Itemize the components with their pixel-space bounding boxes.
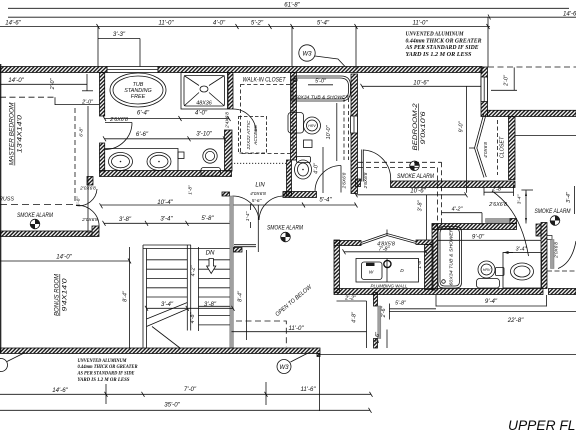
svg-text:4'-8": 4'-8" xyxy=(190,312,196,324)
svg-text:OPEN TO BELOW: OPEN TO BELOW xyxy=(275,284,314,318)
dimension row bottom: 14'-6" 7'-0" 11'-6" xyxy=(0,382,373,405)
svg-text:CLOSET: CLOSET xyxy=(500,136,506,158)
shower 48X36 xyxy=(181,73,228,110)
svg-text:AS PER STANDARD IF SIDE: AS PER STANDARD IF SIDE xyxy=(405,45,479,51)
wall: right wing north xyxy=(488,110,576,116)
svg-text:RUSS: RUSS xyxy=(0,197,14,203)
pocket door dashes bath2 xyxy=(343,98,345,160)
wall: bath2 south xyxy=(283,192,317,198)
svg-text:61'-8": 61'-8" xyxy=(284,1,300,8)
dimension 2'-0" top right xyxy=(488,67,576,90)
svg-text:6'-6": 6'-6" xyxy=(136,131,149,138)
LIN closet xyxy=(231,163,286,188)
dim 3'-8" right of bedroom2 xyxy=(418,195,427,240)
small dim 1'-4" xyxy=(245,204,251,228)
svg-text:UPPER FLOOR PLAN: UPPER FLOOR PLAN xyxy=(508,418,576,432)
wall: master bedroom/bath wall upper xyxy=(100,73,105,117)
vanity xyxy=(503,253,542,289)
svg-text:48X36: 48X36 xyxy=(196,101,212,107)
svg-text:8'-4": 8'-4" xyxy=(123,290,129,302)
dimension 5'-4" hall low xyxy=(319,196,357,207)
dim 4'-0" bath2 xyxy=(314,147,324,193)
small shelf bath2 xyxy=(304,140,313,148)
svg-text:YARD IS 1.2 M OR LESS: YARD IS 1.2 M OR LESS xyxy=(78,377,130,383)
smoke alarm symbol 2 xyxy=(281,232,291,242)
stair north wall xyxy=(143,244,191,246)
svg-text:2'-6": 2'-6" xyxy=(381,306,387,319)
master bedroom doors xyxy=(75,106,99,233)
svg-text:W3: W3 xyxy=(279,364,289,371)
svg-text:10'-0": 10'-0" xyxy=(326,125,332,140)
room label MASTER BEDROOM xyxy=(10,102,24,165)
svg-text:10'-6": 10'-6" xyxy=(413,80,429,87)
svg-text:14'-0": 14'-0" xyxy=(56,253,72,260)
svg-text:SMOKE ALARM: SMOKE ALARM xyxy=(535,208,572,215)
truss step line w/ 2'-0" xyxy=(0,97,99,105)
svg-text:4'-0": 4'-0" xyxy=(314,162,320,174)
wall: bonus room north xyxy=(0,231,92,237)
dimension 3'-3" xyxy=(98,26,140,66)
HRV xyxy=(478,261,495,278)
dim 3'-4" far right xyxy=(566,186,575,214)
svg-text:1'-8": 1'-8" xyxy=(188,185,194,195)
room label BONUS ROOM xyxy=(55,274,69,316)
svg-text:4'0X6'8: 4'0X6'8 xyxy=(250,191,266,197)
svg-text:SMOKE ALARM: SMOKE ALARM xyxy=(397,173,435,180)
wall: south main xyxy=(0,348,320,354)
wall: bath3 west xyxy=(432,224,438,290)
open to below dashed boundary xyxy=(236,321,286,347)
svg-text:3'-8": 3'-8" xyxy=(119,216,132,223)
svg-text:4'-0": 4'-0" xyxy=(195,110,208,117)
svg-text:2'0X6'8: 2'0X6'8 xyxy=(554,242,560,259)
dim 10'-0" bath2 xyxy=(326,103,337,161)
svg-text:6'-8": 6'-8" xyxy=(76,196,82,206)
extension line x=319.5 xyxy=(319,355,321,411)
stair break lines xyxy=(147,303,188,349)
dimension 3'-8" 3'-4" 5'-8" hall xyxy=(103,215,233,226)
dimension line second row 14'-6" right xyxy=(8,11,576,20)
door 2'6X6'8 master bath xyxy=(105,117,132,150)
svg-text:22X22 ATTIC: 22X22 ATTIC xyxy=(246,120,252,151)
svg-text:5'-8": 5'-8" xyxy=(395,300,407,306)
closet divider dashed xyxy=(497,120,499,175)
svg-text:5'-0": 5'-0" xyxy=(315,79,327,85)
wall: laundry/bath3 south xyxy=(334,289,543,295)
tub 60X34 xyxy=(438,227,462,289)
hall pocket door south xyxy=(374,293,381,349)
wall: bath3 east xyxy=(541,223,547,289)
toilet master bath xyxy=(201,149,221,176)
wall: bath2 east with window xyxy=(351,74,358,194)
svg-text:2'4X6'8: 2'4X6'8 xyxy=(225,112,231,129)
svg-text:2'0X6'8: 2'0X6'8 xyxy=(81,217,98,223)
smoke alarm symbol 1 xyxy=(30,219,40,229)
dimension 10'-4" hall xyxy=(100,199,357,252)
svg-text:3'-8": 3'-8" xyxy=(204,301,217,308)
svg-text:5'-2": 5'-2" xyxy=(251,20,264,27)
window tag W3 bottom xyxy=(277,353,309,374)
svg-text:MASTER BEDROOM: MASTER BEDROOM xyxy=(10,102,16,165)
door header xyxy=(486,219,511,223)
svg-text:4'-2": 4'-2" xyxy=(191,265,197,277)
svg-text:LIN: LIN xyxy=(255,183,265,189)
wall: shower/WIC divider xyxy=(228,73,233,110)
svg-text:2'6X6'8: 2'6X6'8 xyxy=(342,172,348,189)
laundry room xyxy=(334,230,433,293)
door 2'6X6'8 bath2 xyxy=(315,166,348,193)
svg-text:5'-4": 5'-4" xyxy=(319,196,332,203)
wall: laundry east xyxy=(425,245,434,290)
dashed alarm interconnect xyxy=(358,162,442,224)
svg-text:6'-8": 6'-8" xyxy=(79,127,85,137)
wall: bedroom2 south xyxy=(391,181,516,188)
stair dims rotated xyxy=(190,265,197,324)
stair east wall gray xyxy=(230,196,234,348)
svg-text:DN: DN xyxy=(206,250,215,257)
svg-text:3'-4": 3'-4" xyxy=(160,215,173,222)
stairwell xyxy=(143,196,234,348)
svg-text:2'6X6'8: 2'6X6'8 xyxy=(363,172,369,189)
svg-text:13'4X14'0: 13'4X14'0 xyxy=(18,114,24,153)
stair divider xyxy=(186,245,188,331)
svg-text:SMOKE ALARM: SMOKE ALARM xyxy=(267,225,304,232)
svg-text:9'-0": 9'-0" xyxy=(472,233,485,240)
svg-text:2'-0": 2'-0" xyxy=(81,99,94,105)
wall: left cut edge xyxy=(0,64,2,353)
svg-text:4'0X6'8: 4'0X6'8 xyxy=(483,142,489,158)
dim 5'-8" xyxy=(390,300,437,309)
dimension 61'-8" overall top xyxy=(8,1,569,8)
svg-text:11'-0": 11'-0" xyxy=(288,325,304,332)
bedroom 2 door xyxy=(356,150,391,190)
stair treads right xyxy=(199,260,230,325)
svg-text:14'-6": 14'-6" xyxy=(563,11,576,18)
svg-text:W3: W3 xyxy=(302,51,312,58)
svg-text:5'-8": 5'-8" xyxy=(201,215,214,222)
svg-text:60X34 TUB & SHOWER: 60X34 TUB & SHOWER xyxy=(295,94,350,100)
washer dryer counter xyxy=(356,259,419,283)
beam line right wing xyxy=(515,135,576,137)
dim 2'-2" xyxy=(337,295,367,348)
svg-text:7'-0": 7'-0" xyxy=(184,386,197,393)
wall: laundry north right xyxy=(416,240,433,245)
svg-text:9'-0": 9'-0" xyxy=(459,121,465,133)
gable roof lines xyxy=(361,234,416,243)
svg-text:2'-2": 2'-2" xyxy=(344,295,357,301)
smoke alarm right xyxy=(535,208,572,225)
truss dashed line xyxy=(0,197,75,205)
wall: bedroom2 east + window xyxy=(481,67,488,117)
svg-text:4'-8": 4'-8" xyxy=(352,311,358,323)
smoke alarm hall 2 xyxy=(267,225,304,232)
dimension 11'-0" open area xyxy=(232,325,367,332)
bathroom 2: 60X34 tub & shower xyxy=(291,76,351,101)
dimension 14'-0" master bedroom xyxy=(0,74,93,91)
wall: hall stub near open to below xyxy=(234,244,256,246)
svg-text:WALK-IN CLOSET: WALK-IN CLOSET xyxy=(243,77,287,84)
dimension 10'-6" bedroom2 top xyxy=(361,80,485,89)
svg-text:14'-6": 14'-6" xyxy=(5,20,21,27)
svg-text:UNVENTED ALUMINUM: UNVENTED ALUMINUM xyxy=(78,358,127,364)
dimension 8'-4" bonus xyxy=(123,247,130,348)
dimension 9'-0" bedroom2 xyxy=(459,86,467,192)
double doors 4'0X6'8 LIN xyxy=(233,191,285,220)
svg-text:3'-4": 3'-4" xyxy=(566,191,572,203)
dimension 3'-4" 3'-8" stairs bottom xyxy=(145,301,235,311)
svg-text:0.44mm THICK OR GREATER: 0.44mm THICK OR GREATER xyxy=(78,364,138,370)
svg-text:11'-0": 11'-0" xyxy=(412,20,428,27)
toilet bath2 xyxy=(295,157,312,180)
svg-text:BEDROOM-2: BEDROOM-2 xyxy=(413,103,419,151)
svg-text:1'-8": 1'-8" xyxy=(417,259,423,269)
door 2'4X6'8 WIC xyxy=(225,109,256,132)
vanity master bath xyxy=(105,149,185,172)
svg-text:11'-0": 11'-0" xyxy=(158,20,174,27)
stair treads left xyxy=(147,260,188,297)
svg-text:3'-10": 3'-10" xyxy=(196,130,212,137)
note: unvented aluminum (bottom) xyxy=(77,358,138,383)
svg-text:9'0x10'6: 9'0x10'6 xyxy=(421,111,427,145)
svg-text:14'-6": 14'-6" xyxy=(52,387,68,394)
svg-text:2'6X6'8: 2'6X6'8 xyxy=(488,202,507,208)
wall: master bath east xyxy=(225,130,233,171)
smoke alarm bedroom2 xyxy=(397,161,435,180)
dimension row three: 14'-6" 11'-0" 4'-0" 5'-2" 5'-4" 11'-0" xyxy=(0,20,490,29)
dimension 22'-8" xyxy=(389,312,576,325)
wall: top exterior main segment xyxy=(158,67,482,73)
line: lower outline right xyxy=(319,354,576,356)
closet bifold doors xyxy=(469,113,489,178)
svg-text:9'-4": 9'-4" xyxy=(485,298,498,305)
smoke alarm hall (bonus) xyxy=(17,212,54,219)
wall: LIN south jambs xyxy=(222,192,230,196)
wall: LIN east xyxy=(287,160,292,196)
svg-text:22'-8": 22'-8" xyxy=(507,317,524,324)
svg-text:3'-8": 3'-8" xyxy=(418,200,424,212)
dimension 6'-4" / 4'-0" tub room xyxy=(103,110,231,122)
dimension 9'-4" xyxy=(436,295,547,307)
svg-text:1'-4": 1'-4" xyxy=(245,211,251,221)
svg-text:14'-0": 14'-0" xyxy=(8,77,24,84)
svg-text:35'-0": 35'-0" xyxy=(164,401,180,408)
svg-text:HRV: HRV xyxy=(308,124,316,128)
svg-text:D: D xyxy=(400,268,404,274)
door arc bath3 xyxy=(492,191,529,256)
note: unvented aluminum (top) xyxy=(405,32,482,58)
svg-text:W: W xyxy=(369,270,374,276)
wall: master bath south xyxy=(100,171,232,177)
svg-text:6'-4": 6'-4" xyxy=(137,110,150,117)
dimension 8'-4" open below xyxy=(238,250,247,340)
svg-text:BONUS ROOM: BONUS ROOM xyxy=(55,274,61,316)
svg-text:3'-4": 3'-4" xyxy=(517,194,523,204)
HRV unit bath2 xyxy=(288,113,321,135)
svg-text:5'-4": 5'-4" xyxy=(317,20,330,27)
room label BEDROOM-2 xyxy=(413,103,427,151)
wall: laundry west xyxy=(334,240,340,293)
svg-text:AS PER STANDARD IF SIDE: AS PER STANDARD IF SIDE xyxy=(77,371,135,377)
svg-text:3'-4": 3'-4" xyxy=(161,301,174,308)
svg-text:60X34 TUB & SHOWER: 60X34 TUB & SHOWER xyxy=(449,228,455,286)
window in top wall xyxy=(107,67,158,73)
svg-text:FREE: FREE xyxy=(131,94,146,100)
svg-text:0.44mm THICK OR GREATER: 0.44mm THICK OR GREATER xyxy=(406,38,482,44)
wall: bath2 west xyxy=(291,73,297,161)
wall: closet east xyxy=(509,117,516,180)
dimension 10'-6" under bedroom2 xyxy=(355,188,468,198)
dashed line right xyxy=(547,270,576,272)
svg-text:YARD IS 1.2 M OR LESS: YARD IS 1.2 M OR LESS xyxy=(406,52,473,58)
svg-text:4'-0": 4'-0" xyxy=(213,20,226,27)
dimension 14'-0" bonus xyxy=(0,253,131,263)
toilet paper / accessory xyxy=(496,268,505,276)
wall: top exterior left segment xyxy=(0,67,107,73)
svg-text:5'-6": 5'-6" xyxy=(252,198,262,204)
svg-text:9'4X14'0: 9'4X14'0 xyxy=(63,278,69,312)
dimension 6'-6" / 3'-10" xyxy=(103,130,226,141)
attic access dashed box xyxy=(239,117,267,154)
svg-text:10'-6": 10'-6" xyxy=(410,188,426,195)
wall: bath3 north xyxy=(432,224,517,230)
svg-text:11'-6": 11'-6" xyxy=(300,386,316,393)
svg-text:3'-4": 3'-4" xyxy=(516,246,528,252)
door far right xyxy=(547,236,576,269)
wall: master suite west jamb xyxy=(87,177,93,186)
WIC shelving dashed xyxy=(241,85,294,154)
dimension 35'-0" xyxy=(0,401,372,413)
DN label and arrow xyxy=(206,250,216,274)
dims 2'-6" x2 xyxy=(375,304,390,349)
window tag W3 circle xyxy=(299,45,345,67)
svg-text:2'-0": 2'-0" xyxy=(50,78,56,91)
svg-text:UNVENTED ALUMINUM: UNVENTED ALUMINUM xyxy=(406,32,465,38)
window tag W3 bottom left xyxy=(0,353,25,372)
svg-text:4'-2": 4'-2" xyxy=(452,207,464,213)
extension lines top xyxy=(291,26,293,66)
svg-text:3'-3": 3'-3" xyxy=(113,31,126,38)
svg-text:2'-0": 2'-0" xyxy=(504,74,510,87)
svg-text:HRV: HRV xyxy=(483,268,491,272)
svg-text:8'-4": 8'-4" xyxy=(238,290,244,302)
svg-text:SMOKE ALARM: SMOKE ALARM xyxy=(17,212,54,219)
stair west wall xyxy=(142,245,144,348)
free standing tub xyxy=(110,73,166,107)
svg-text:2'-6": 2'-6" xyxy=(375,331,381,344)
wall: laundry north left xyxy=(334,241,361,246)
dimension 2'-8" closet xyxy=(484,185,514,197)
bathroom 3 xyxy=(432,190,547,290)
wall: master bath west lower xyxy=(100,143,105,171)
